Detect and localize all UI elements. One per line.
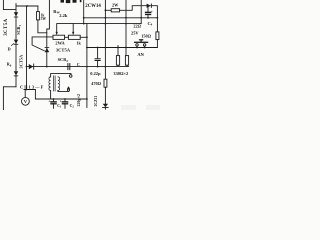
svg-text:150Ω: 150Ω <box>141 34 151 39</box>
svg-text:25V: 25V <box>131 30 139 35</box>
svg-text:D: D <box>8 47 11 52</box>
svg-text:470Ω: 470Ω <box>91 81 101 86</box>
svg-text:0.22μ: 0.22μ <box>90 71 101 76</box>
svg-text:2WA: 2WA <box>55 40 65 45</box>
svg-text:3CT5A: 3CT5A <box>19 54 24 68</box>
svg-text:AN: AN <box>137 52 144 57</box>
svg-text:SCR2: SCR2 <box>58 57 69 63</box>
svg-text:+: + <box>60 99 62 103</box>
svg-text:C1: C1 <box>57 104 62 109</box>
svg-text:3CT5A: 3CT5A <box>4 18 9 35</box>
svg-text:3CT5A: 3CT5A <box>56 48 71 53</box>
svg-text:SCR1: SCR1 <box>16 24 22 34</box>
svg-text:C4: C4 <box>148 21 153 27</box>
svg-text:330Ω×2: 330Ω×2 <box>113 71 128 76</box>
svg-text:R0: R0 <box>7 62 12 68</box>
svg-text:220μ×2: 220μ×2 <box>76 94 81 107</box>
svg-text:2.2k: 2.2k <box>59 13 68 18</box>
svg-text:+: + <box>151 10 153 14</box>
svg-text:+: + <box>48 99 50 103</box>
svg-text:22Ω: 22Ω <box>133 24 141 29</box>
svg-text:2W: 2W <box>112 3 119 8</box>
svg-text:1k: 1k <box>76 41 81 46</box>
svg-text:C: C <box>77 62 80 67</box>
svg-text:2CW14: 2CW14 <box>85 4 101 9</box>
svg-text:2CZ11: 2CZ11 <box>94 96 98 107</box>
svg-text:CD13—F: CD13—F <box>20 84 44 89</box>
svg-text:C2: C2 <box>70 104 75 109</box>
svg-text:5W: 5W <box>41 17 47 21</box>
